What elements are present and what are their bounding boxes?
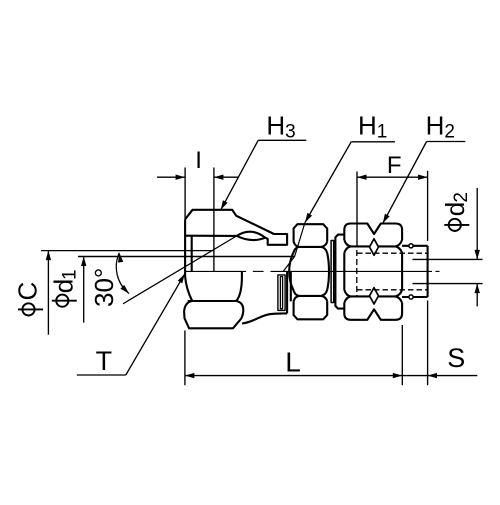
svg-text:C: C [13, 282, 43, 301]
svg-text:2: 2 [451, 192, 472, 203]
svg-text:I: I [195, 147, 202, 174]
svg-text:F: F [387, 152, 402, 179]
svg-text:T: T [96, 346, 113, 376]
svg-text:L: L [285, 347, 301, 378]
svg-text:30°: 30° [89, 268, 119, 307]
svg-text:d: d [440, 202, 470, 216]
svg-text:S: S [447, 343, 465, 373]
svg-text:1: 1 [60, 269, 81, 280]
